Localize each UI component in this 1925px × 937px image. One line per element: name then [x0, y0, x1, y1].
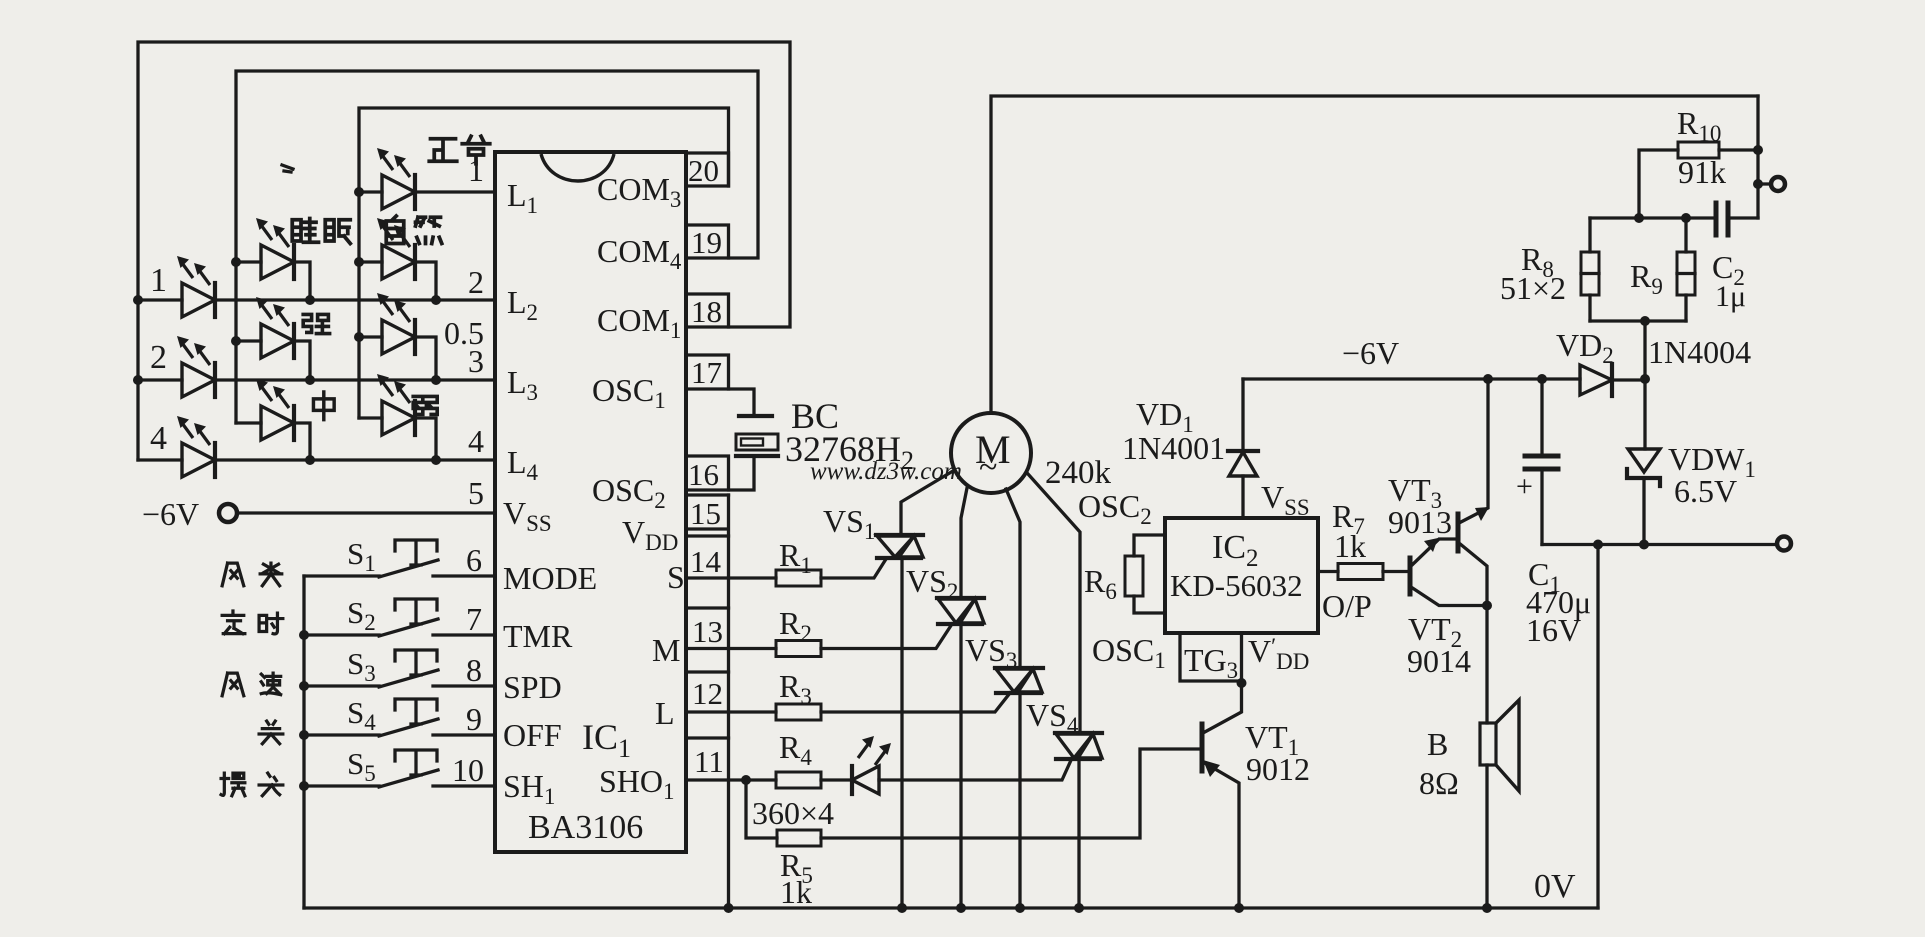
node VS4 on rail — [1074, 903, 1084, 913]
wire L1 row to IC1 pin1 — [359, 190, 495, 193]
svg-text:12: 12 — [692, 676, 723, 711]
motor M body — [951, 413, 1031, 493]
label su (speed) S3 char2 — [261, 673, 280, 695]
node: third rail joins natural LED — [354, 257, 364, 267]
label feng (wind) S3 char1 — [222, 673, 244, 696]
svg-text:0V: 0V — [1534, 868, 1576, 905]
resistor R4 — [776, 772, 821, 788]
wire R5 branch down — [746, 780, 777, 838]
LED natural (zi-ran) — [377, 218, 415, 279]
svg-text:COM4: COM4 — [597, 233, 682, 274]
label ruo (weak) — [413, 396, 437, 414]
switch S3 — [304, 650, 495, 687]
node: third rail joins 0.5 LED — [354, 332, 364, 342]
IC1 pin17 box — [686, 355, 729, 389]
svg-text:−6V: −6V — [1342, 335, 1399, 371]
svg-text:2: 2 — [468, 264, 484, 300]
svg-text:15: 15 — [690, 496, 721, 531]
speaker B body — [1480, 700, 1519, 791]
svg-text:11: 11 — [694, 744, 724, 779]
svg-text:17: 17 — [691, 355, 722, 390]
wire 0V bottom rail — [304, 906, 1598, 909]
wire -6V to IC1 VSS pin5 — [237, 511, 495, 514]
svg-text:1N4001: 1N4001 — [1122, 430, 1225, 466]
wire R3 to VS3 gate — [821, 693, 1010, 712]
svg-text:9: 9 — [466, 701, 482, 737]
wire COM4 middle loop: IC1 pin19 to second LED column rail — [236, 71, 758, 423]
node rail S4 — [299, 730, 309, 740]
wire IC2 O/P to R7 — [1318, 570, 1338, 573]
LED 0.5 hour — [377, 293, 415, 354]
node: second rail joins sleep LED — [231, 257, 241, 267]
label chang (normal) char2 — [462, 136, 490, 164]
node: third rail joins normal LED row — [354, 187, 364, 197]
resistor R5 — [777, 830, 821, 846]
label guan (off) S4 — [259, 721, 283, 744]
transistor VT3 base bar — [1456, 514, 1461, 551]
wire 0.5 LED cathode down to L3 row — [359, 337, 436, 380]
IC1 pin15 box — [686, 493, 729, 496]
svg-text:M: M — [652, 632, 680, 668]
wire R10 right leg — [1719, 148, 1758, 151]
node VT1 emitter on rail — [1234, 903, 1244, 913]
resistor R9 — [1677, 218, 1695, 321]
wire VDD pin15 down to 0V rail — [686, 495, 729, 908]
svg-text:B: B — [1427, 726, 1448, 762]
svg-text:1μ: 1μ — [1715, 280, 1746, 313]
wire L3 row to IC1 pin3 — [138, 378, 495, 381]
node rail S2 — [299, 630, 309, 640]
label zhong (medium) — [313, 392, 334, 420]
wire COM1 outer loop: IC1 pin18 up over the top and down the left LED rail — [138, 42, 790, 460]
wire strong LED cathode down to L3 row — [236, 341, 310, 380]
svg-text:9014: 9014 — [1407, 643, 1471, 679]
LED timer 1 — [177, 256, 215, 317]
capacitor C1 — [1525, 379, 1558, 545]
switch S2 — [304, 599, 495, 636]
VT3 emitter down — [1459, 543, 1487, 606]
node terminal tap — [1753, 179, 1763, 189]
svg-text:COM1: COM1 — [597, 302, 681, 343]
node: left rail joins L2 row — [133, 295, 143, 305]
node C1 on -6V rail — [1537, 374, 1547, 384]
svg-text:−6V: −6V — [142, 496, 199, 532]
svg-text:9012: 9012 — [1246, 751, 1310, 787]
svg-text:2: 2 — [150, 339, 167, 376]
svg-text:14: 14 — [690, 544, 722, 579]
svg-text:1k: 1k — [1334, 528, 1366, 564]
node: left rail joins L3 row — [133, 375, 143, 385]
svg-text:L: L — [655, 695, 675, 731]
triac VS3 — [995, 668, 1043, 693]
svg-text:S: S — [667, 559, 685, 595]
diode VD2 — [1580, 364, 1645, 396]
IC1 pin18 box — [686, 294, 729, 327]
resistor R3 — [776, 704, 821, 720]
wire motor top to supply rail — [991, 96, 1758, 413]
node VS2 on rail — [956, 903, 966, 913]
IC1 pin20 box — [686, 153, 729, 186]
wire supply rail down right side — [1756, 96, 1759, 218]
wire R2 to VS2 gate — [821, 624, 952, 649]
node speaker on rail — [1482, 903, 1492, 913]
IC1 pin19 box — [686, 225, 729, 258]
svg-text:6: 6 — [466, 542, 482, 578]
VT1 emitter — [1203, 762, 1239, 908]
triac VS2 — [937, 598, 984, 624]
IC2 KD-56032 body — [1165, 518, 1318, 633]
wire down to -6V rail — [1643, 321, 1646, 379]
crystal BC inner electrode — [741, 439, 763, 446]
node: strong cathode on L3 — [305, 375, 315, 385]
LED strong (qiang) — [256, 297, 294, 358]
switch S4 — [304, 699, 495, 736]
wire R8 R9 C2 top rail — [1590, 216, 1716, 219]
wire motor lead to VS2 — [961, 488, 967, 598]
LED medium (zhong) — [256, 379, 294, 440]
svg-text:360×4: 360×4 — [752, 795, 834, 831]
wire LED to VS4 gate — [821, 758, 1072, 780]
TG3 box — [1180, 633, 1242, 681]
svg-text:5: 5 — [468, 475, 484, 511]
wire C2 right to terminal line — [1728, 216, 1758, 219]
wire L pin12 to R3 — [686, 710, 776, 713]
label mian (sleep) char2 — [325, 220, 350, 244]
wire VS1 to 0V rail — [900, 558, 903, 908]
svg-text:~: ~ — [979, 449, 997, 486]
wire R8 R9 bottom rail — [1590, 319, 1686, 322]
wire R7 to VT2 base — [1383, 570, 1408, 573]
wire motor lead to VS1 — [901, 471, 953, 535]
zener VDW1 — [1627, 379, 1660, 545]
wire crystal to OSC2 pin16 — [686, 458, 754, 490]
LED timer 2 — [177, 336, 215, 397]
wire 0V riser — [1596, 545, 1599, 909]
wire S pin14 to R1 — [686, 576, 776, 579]
node VD2 cathode junction — [1640, 374, 1650, 384]
stray pen mark — [282, 165, 293, 172]
node VS1 on rail — [897, 903, 907, 913]
node: second rail joins strong LED — [231, 336, 241, 346]
node VS3 on rail — [1015, 903, 1025, 913]
svg-text:7: 7 — [466, 601, 482, 637]
svg-text:4: 4 — [150, 420, 167, 457]
VT1 emitter arrow — [1203, 760, 1220, 777]
capacitor C2 — [1716, 203, 1728, 235]
terminal -6V — [219, 504, 237, 522]
wire to top terminal — [1758, 182, 1770, 185]
svg-text:BA3106: BA3106 — [528, 809, 643, 846]
wire VDD' pin down — [1240, 633, 1243, 683]
wire COM3 inner loop: IC1 pin20 to third LED column rail — [359, 108, 729, 418]
wire VS3 to 0V rail — [1018, 693, 1021, 908]
svg-text:OFF: OFF — [503, 717, 562, 753]
svg-text:SPD: SPD — [503, 669, 562, 705]
LED normal (zheng-chang) — [377, 148, 415, 209]
svg-text:+: + — [1516, 470, 1533, 503]
crystal BC top plate — [739, 414, 772, 418]
VT3 collector up to -6V — [1459, 379, 1488, 523]
svg-text:TMR: TMR — [503, 618, 573, 654]
svg-text:3: 3 — [468, 343, 484, 379]
wire speaker to 0V rail — [1485, 765, 1488, 908]
wire M pin13 to R2 — [686, 647, 776, 650]
svg-text:240k: 240k — [1045, 455, 1112, 491]
resistor R6 — [1125, 535, 1165, 613]
wire motor lead to VS4 — [1028, 474, 1080, 733]
label qiang (strong) — [303, 314, 329, 333]
crystal BC bottom plate — [736, 454, 778, 458]
node 0V riser — [1593, 540, 1603, 550]
wire medium LED cathode down to L4 row — [236, 423, 310, 460]
node: weak cathode on L4 — [431, 455, 441, 465]
svg-text:1: 1 — [468, 152, 484, 188]
triac VS4 — [1055, 733, 1102, 759]
node: natural cathode on L2 — [431, 295, 441, 305]
wire SHO1 pin11 to R4 — [686, 778, 776, 781]
svg-text:13: 13 — [692, 614, 723, 649]
wire -6V rail from VD1 — [1243, 377, 1580, 380]
label feng (wind) S1 char1 — [222, 563, 244, 586]
IC1 BA3106 body — [495, 152, 686, 852]
IC1 pin13 box — [686, 606, 729, 609]
svg-text:9013: 9013 — [1388, 504, 1452, 540]
wire R1 to VS1 gate — [821, 559, 886, 578]
svg-text:8Ω: 8Ω — [1419, 765, 1459, 801]
node: sleep cathode on L2 — [305, 295, 315, 305]
svg-text:19: 19 — [691, 225, 722, 260]
label tou (head) S5 char2 — [259, 773, 283, 796]
svg-text:16: 16 — [688, 457, 719, 492]
LED weak (ruo) — [377, 374, 415, 435]
wire emitter junction to speaker — [1485, 606, 1488, 724]
LED timer 4 — [177, 416, 215, 477]
svg-text:KD-56032: KD-56032 — [1170, 568, 1303, 603]
svg-text:16V: 16V — [1526, 612, 1581, 648]
LED sleep (shui-mian) — [256, 218, 294, 279]
VT2 emitter — [1411, 587, 1487, 606]
svg-text:1k: 1k — [780, 874, 812, 910]
node R10 right — [1753, 145, 1763, 155]
resistor R1 — [776, 570, 821, 586]
svg-text:8: 8 — [466, 652, 482, 688]
IC1 pin12 box — [686, 670, 729, 673]
transistor VT2 base bar — [1408, 558, 1413, 594]
terminal top output — [1771, 177, 1785, 191]
wire R5 to VT1 base — [821, 749, 1199, 838]
switch S1 — [304, 540, 495, 577]
resistor R2 — [776, 641, 821, 657]
svg-text:51×2: 51×2 — [1500, 270, 1566, 306]
svg-text:COM3: COM3 — [597, 171, 681, 212]
VT2 collector arrow — [1424, 538, 1438, 552]
wire weak LED cathode down to L4 row — [359, 418, 436, 460]
svg-text:91k: 91k — [1678, 154, 1726, 190]
IC1 pin11 box — [686, 736, 729, 739]
resistor R8 (51x2 double body) — [1581, 218, 1599, 321]
IC1 pin16 box — [686, 456, 729, 490]
svg-text:20: 20 — [688, 153, 719, 188]
wire VS4 to 0V rail — [1077, 759, 1080, 908]
transistor VT1 base bar — [1200, 724, 1205, 771]
switch S5 — [304, 750, 495, 787]
wire lower output rail — [1542, 543, 1776, 546]
node VDD' junction — [1237, 678, 1247, 688]
label shui (sleep) char1 — [292, 219, 318, 243]
label zi (natural) char1 — [386, 216, 404, 244]
terminal lower output — [1777, 537, 1791, 551]
node: medium cathode on L4 — [305, 455, 315, 465]
svg-text:1: 1 — [150, 262, 167, 299]
triac VS1 — [876, 535, 923, 558]
crystal BC body — [736, 434, 778, 450]
node VDD line on bottom rail — [724, 903, 734, 913]
wire OSC1 pin17 to crystal — [686, 389, 754, 413]
node R5 tap on pin11 wire — [741, 775, 751, 785]
diode VD1 — [1228, 379, 1258, 518]
node VT2 VT3 emitter junction — [1482, 601, 1492, 611]
svg-text:4: 4 — [468, 423, 484, 459]
wire natural LED cathode down to L2 row — [359, 262, 436, 300]
VT2 collector to VT3 base — [1411, 539, 1456, 566]
wire VS2 to 0V rail — [959, 624, 962, 908]
node rail S3 — [299, 681, 309, 691]
svg-text:18: 18 — [691, 294, 722, 329]
label bai (swing) S5 char1 — [221, 773, 245, 796]
svg-text:6.5V: 6.5V — [1674, 473, 1737, 509]
VT3 collector arrow — [1475, 507, 1489, 521]
IC1 pin14 box — [686, 534, 729, 537]
wire sleep LED cathode down to L2 row — [236, 262, 310, 300]
resistor R7 — [1338, 564, 1383, 580]
wire switch common rail — [302, 576, 305, 908]
wire L4 row to IC1 pin4 — [138, 458, 495, 461]
VT1 collector — [1203, 683, 1242, 733]
resistor R10 — [1678, 142, 1719, 158]
node: 0.5 cathode on L3 — [431, 375, 441, 385]
node R10 leg joins top rail — [1634, 213, 1644, 223]
IC1 top notch — [541, 154, 614, 181]
wire R10 left leg — [1639, 150, 1678, 218]
node VT3 collector on -6V rail — [1483, 374, 1493, 384]
svg-text:O/P: O/P — [1322, 588, 1372, 624]
svg-text:1N4004: 1N4004 — [1648, 334, 1751, 370]
wire motor lead to VS3 — [1006, 489, 1020, 668]
node zener on output rail — [1639, 540, 1649, 550]
label lei (type) S1 char2 — [260, 563, 282, 586]
label zheng (normal) char1 — [429, 139, 457, 162]
node zener tap — [1640, 316, 1650, 326]
label ding (timer) S2 char1 — [222, 611, 245, 634]
node rail S5 — [299, 781, 309, 791]
svg-text:MODE: MODE — [503, 560, 597, 596]
label ran (natural) char2 — [416, 217, 442, 243]
svg-text:10: 10 — [452, 752, 484, 788]
LED indicator on SHO1 line — [852, 736, 891, 794]
node R9 top — [1681, 213, 1691, 223]
wire L2 row to IC1 pin2 — [138, 298, 495, 301]
label shi (timer) S2 char2 — [259, 613, 283, 634]
